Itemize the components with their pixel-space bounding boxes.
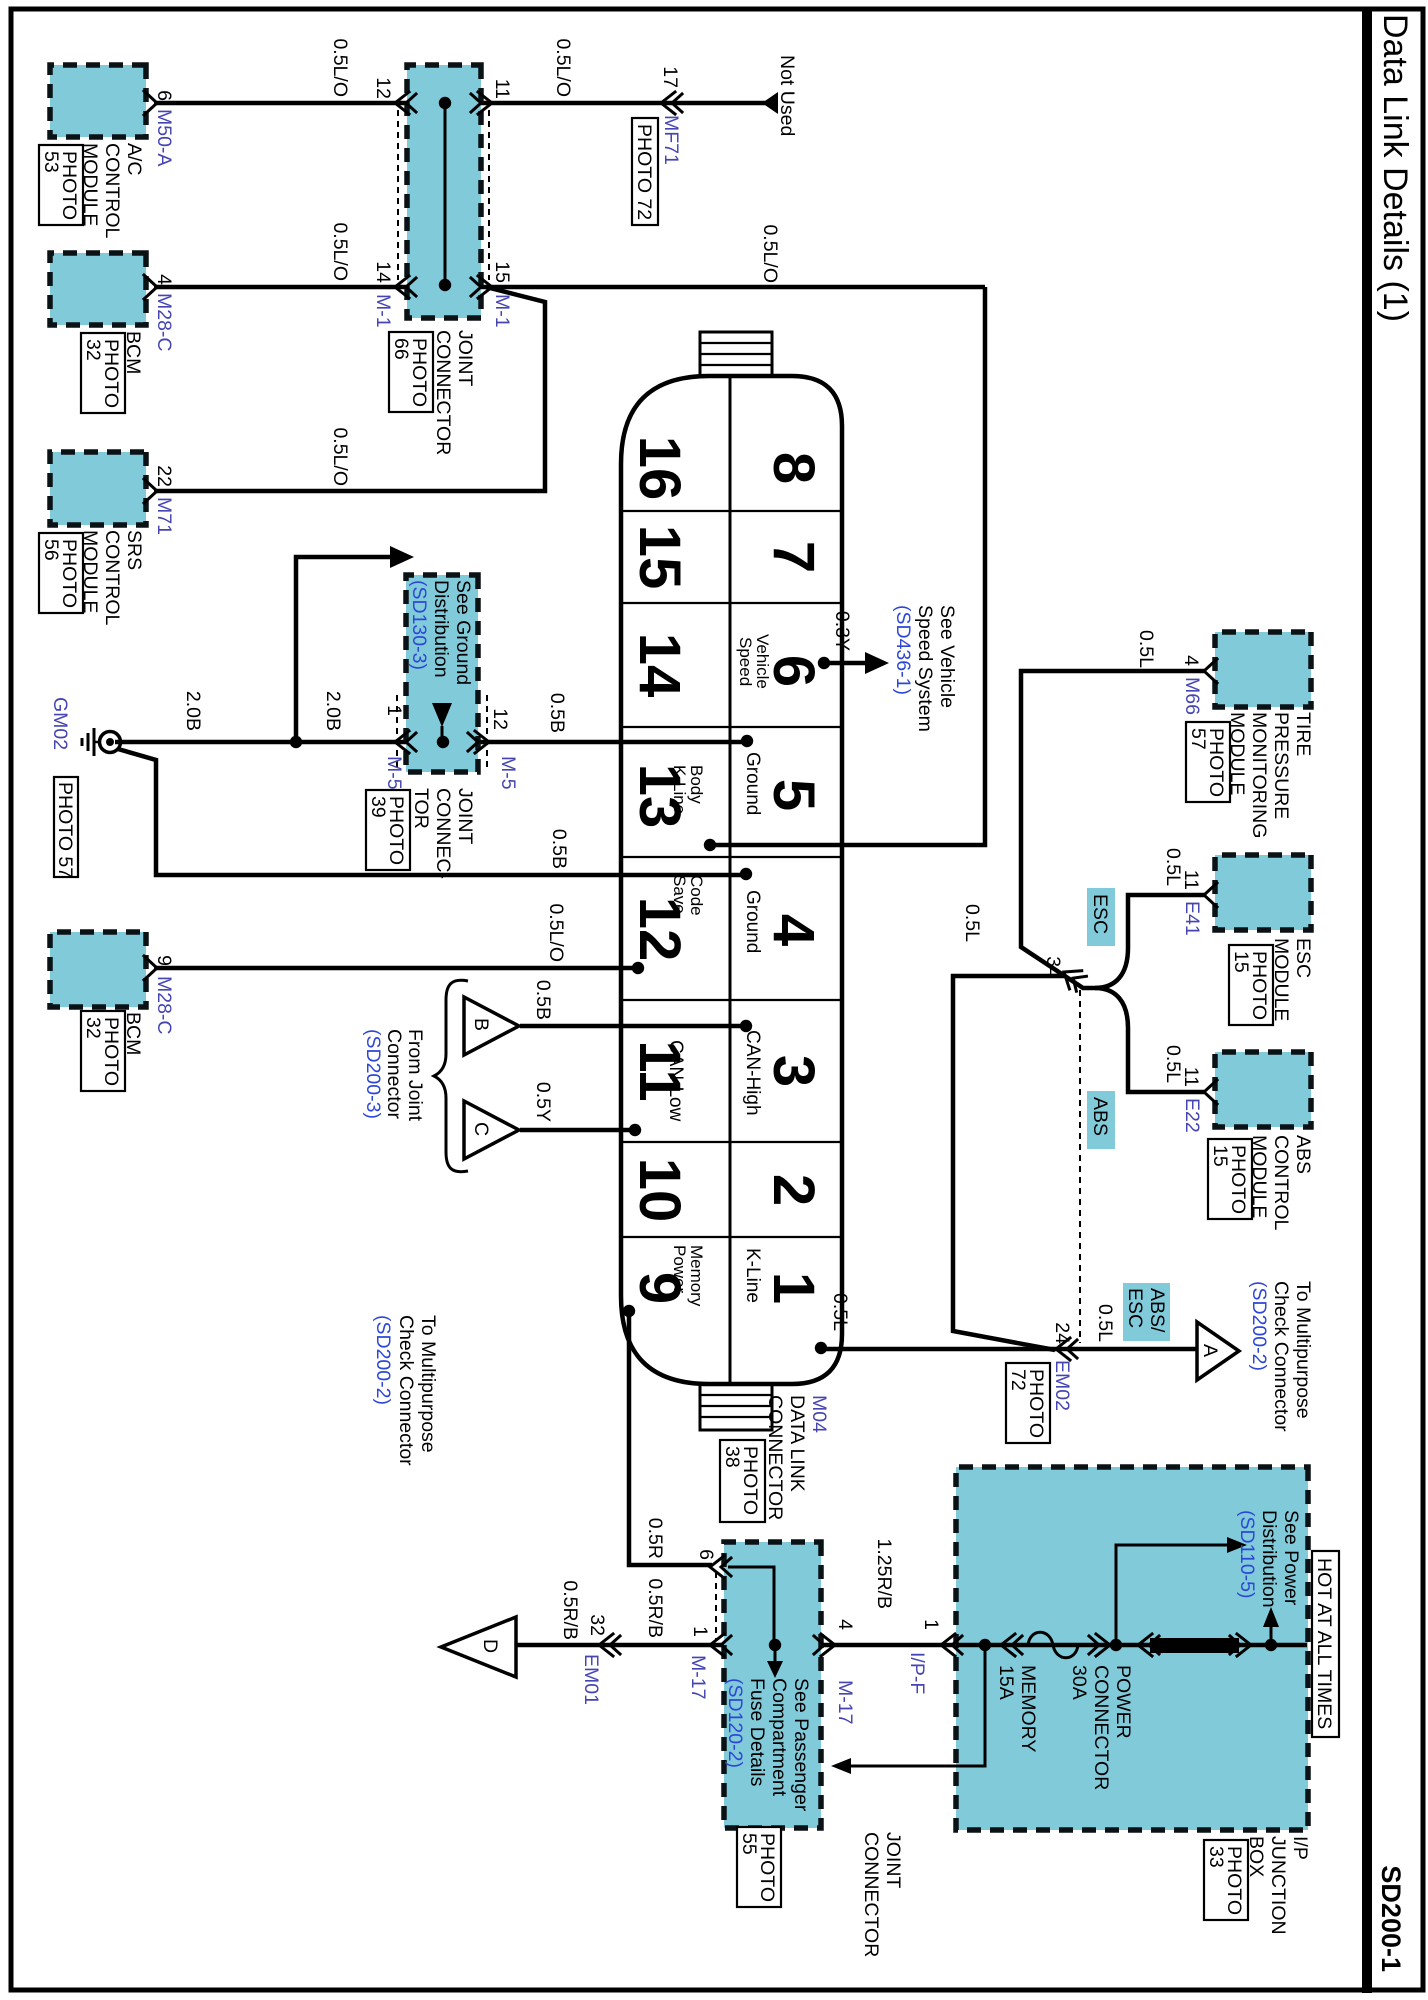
wire SRS: M-1 pin15 diagonal, run and drop: [154, 287, 545, 491]
see ground distribution arrow head: [390, 546, 414, 568]
BCM pin chevron: [144, 275, 157, 299]
svg-text:14: 14: [372, 261, 394, 283]
svg-text:38: 38: [721, 1446, 743, 1468]
svg-text:0.5B: 0.5B: [546, 693, 568, 733]
svg-text:4: 4: [834, 1619, 856, 1630]
svg-text:12: 12: [372, 77, 394, 99]
I/P junction box: [956, 1467, 1308, 1830]
M-17 internal dot: [769, 1639, 781, 1651]
pin 5 dot: [741, 735, 753, 747]
svg-text:SD200-1: SD200-1: [1376, 1865, 1406, 1972]
svg-text:0.3Y: 0.3Y: [831, 611, 853, 651]
ABS/ESC highlight label: [1123, 1283, 1170, 1341]
fuse MEMORY 15A chevrons lower: [1001, 1634, 1022, 1656]
svg-text:2.0B: 2.0B: [322, 691, 344, 731]
svg-text:CONNEC-: CONNEC-: [432, 788, 454, 879]
cell separator 12|11: [621, 999, 842, 1001]
PHOTO 53 box: [39, 145, 83, 225]
M-17 chevrons pin 1 bottom: [710, 1634, 731, 1656]
PHOTO 72 box (MF71): [632, 118, 658, 225]
wire pin 13 up and left to M-1 pin 15: [710, 287, 985, 845]
PHOTO 72 box (EM02): [1006, 1363, 1050, 1443]
hot at all times arrow: [1270, 1627, 1273, 1645]
svg-text:M28-C: M28-C: [153, 293, 175, 352]
PHOTO 66 box: [389, 332, 433, 412]
M-17 chevrons pin 6 bottom: [710, 1556, 731, 1578]
svg-text:0.5L/O: 0.5L/O: [329, 38, 351, 97]
M-1 dashed connector edge bottom: [397, 110, 399, 280]
svg-text:Save: Save: [670, 875, 689, 914]
svg-text:5: 5: [761, 779, 826, 811]
fuse element: [1028, 1632, 1078, 1658]
pin 3 dot: [740, 1020, 752, 1032]
M-5 joint connector box with SD130-3 note: [406, 575, 478, 772]
PHOTO 32 box: [81, 333, 125, 413]
BCM 2 module box: [50, 932, 146, 1007]
svg-text:ESC: ESC: [1124, 1288, 1146, 1328]
svg-text:15: 15: [627, 525, 692, 590]
wire pin 11 CAN-Low down to C: [520, 1128, 635, 1133]
ABS module box: [1215, 1052, 1311, 1127]
svg-text:2.0B: 2.0B: [182, 691, 204, 731]
svg-text:See Passenger: See Passenger: [790, 1678, 812, 1812]
connector row divider: [729, 376, 732, 1384]
inline connector MF71: [661, 92, 682, 114]
svg-text:PHOTO 72: PHOTO 72: [633, 124, 655, 220]
svg-text:17: 17: [659, 66, 681, 88]
M-1 junction dot left: [439, 97, 451, 109]
M-17 chevrons pin 4 top: [814, 1634, 835, 1656]
svg-text:Check Connector: Check Connector: [395, 1315, 417, 1466]
ESC pin chevron: [1204, 883, 1217, 907]
vehicle speed arrow: [865, 652, 889, 674]
M-5 chevrons top (pin 12): [468, 731, 489, 753]
svg-text:SRS: SRS: [123, 530, 145, 570]
junction dot 1: [979, 1639, 991, 1651]
svg-text:E22: E22: [1181, 1098, 1203, 1133]
svg-text:Speed: Speed: [736, 637, 755, 686]
svg-text:15: 15: [491, 261, 513, 283]
M-1 dashed connector edge top: [488, 110, 490, 280]
svg-text:MF71: MF71: [660, 115, 682, 165]
ground branch to SD130-3 arrow: [296, 557, 392, 742]
svg-text:32: 32: [82, 1017, 104, 1039]
svg-text:PRESSURE: PRESSURE: [1270, 712, 1292, 819]
power connector chevrons upper: [1230, 1634, 1251, 1656]
svg-text:Ground: Ground: [742, 752, 763, 815]
svg-text:CAN-High: CAN-High: [742, 1030, 763, 1116]
wire EM02 branch: down from junction, right, diagonal to 24: [953, 976, 1066, 1350]
svg-text:Distribution: Distribution: [1258, 1510, 1280, 1608]
I/P entry chevrons: [941, 1634, 962, 1656]
inline connector EM02 (24): [1056, 1338, 1077, 1360]
PHOTO 15 box (ESC): [1229, 945, 1273, 1025]
svg-text:CONTROL: CONTROL: [1270, 1135, 1292, 1230]
pin 13 dot: [704, 839, 716, 851]
svg-text:(SD200-3): (SD200-3): [362, 1029, 384, 1119]
M-1 chevrons wire1 top (pin 11): [471, 92, 492, 114]
svg-text:0.5L: 0.5L: [1094, 1304, 1116, 1342]
wire pin 9 right and up to M-17 pin 6: [629, 1311, 712, 1565]
svg-text:1: 1: [383, 705, 405, 716]
svg-text:Data Link Details (1): Data Link Details (1): [1376, 14, 1414, 322]
svg-text:57: 57: [1187, 728, 1209, 750]
svg-text:M71: M71: [153, 497, 175, 535]
svg-text:4: 4: [761, 914, 826, 946]
wire pin 12 down to BCM: [154, 966, 638, 971]
ground junction dot: [290, 736, 302, 748]
svg-text:CONNECTOR: CONNECTOR: [764, 1395, 786, 1520]
BCM 2 pin chevron: [144, 956, 157, 980]
PHOTO 32 box (BCM 2): [81, 1011, 125, 1091]
svg-text:TOR: TOR: [410, 788, 432, 829]
svg-text:0.5R/B: 0.5R/B: [644, 1578, 666, 1638]
M-5 internal dot: [437, 736, 449, 748]
svg-text:JUNCTION: JUNCTION: [1267, 1836, 1289, 1935]
svg-text:33: 33: [1205, 1846, 1227, 1868]
svg-text:12: 12: [489, 708, 511, 730]
inline connector EM01 (32): [599, 1634, 620, 1656]
svg-text:POWER: POWER: [1112, 1665, 1134, 1739]
TPMS module box: [1215, 632, 1311, 707]
right tab: [700, 1384, 772, 1430]
A/C pin chevron: [144, 91, 157, 115]
svg-text:M-5: M-5: [383, 756, 405, 790]
svg-text:MONITORING: MONITORING: [1248, 712, 1270, 838]
svg-text:30A: 30A: [1068, 1665, 1090, 1700]
svg-text:JOINT: JOINT: [882, 1832, 904, 1888]
svg-text:EM01: EM01: [580, 1654, 602, 1705]
pin 12 dot: [632, 962, 644, 974]
svg-text:1: 1: [689, 1626, 711, 1637]
junction dot 2: [1110, 1639, 1122, 1651]
svg-text:Not Used: Not Used: [776, 55, 798, 136]
svg-text:ABS: ABS: [1292, 1135, 1314, 1174]
triangle C: [464, 1101, 519, 1159]
svg-text:A: A: [1199, 1344, 1221, 1357]
svg-text:(SD200-2): (SD200-2): [1248, 1281, 1270, 1371]
svg-text:Distribution: Distribution: [430, 580, 452, 678]
M-1 internal bus line: [444, 103, 447, 285]
svg-text:CONNECTOR: CONNECTOR: [1090, 1665, 1112, 1790]
svg-text:A/C: A/C: [123, 143, 145, 176]
branch to fuse details arrow: [851, 1645, 985, 1766]
svg-text:1.25R/B: 1.25R/B: [873, 1539, 895, 1609]
svg-text:39: 39: [367, 796, 389, 818]
svg-text:0.5B: 0.5B: [532, 980, 554, 1020]
svg-text:15A: 15A: [995, 1665, 1017, 1700]
svg-text:0.5R: 0.5R: [644, 1518, 666, 1559]
fuse MEMORY 15A chevrons upper: [1089, 1634, 1110, 1656]
svg-text:M28-C: M28-C: [153, 976, 175, 1035]
svg-text:Compartment: Compartment: [768, 1678, 790, 1797]
ESC highlight label: [1087, 888, 1115, 946]
svg-text:ABS: ABS: [1089, 1097, 1111, 1136]
wire pin 6 up: [824, 661, 865, 666]
ABS pin chevron: [1204, 1080, 1217, 1104]
wire M-17 pin1/EM01/triangle D: [516, 1643, 724, 1648]
svg-text:0.5L/O: 0.5L/O: [552, 38, 574, 97]
svg-text:34: 34: [1042, 956, 1064, 978]
split curve to ESC: [1095, 895, 1204, 988]
PHOTO 57 box (TPMS): [1186, 722, 1230, 802]
ABS highlight label: [1087, 1091, 1115, 1149]
svg-text:See Ground: See Ground: [452, 580, 474, 685]
svg-text:TIRE: TIRE: [1292, 712, 1314, 756]
svg-text:From Joint: From Joint: [404, 1029, 426, 1122]
svg-text:M50-A: M50-A: [153, 109, 175, 166]
left tab: [700, 332, 772, 376]
svg-text:72: 72: [1007, 1369, 1029, 1391]
pin 6 dot: [818, 657, 830, 669]
M-1 chevrons wire2 bottom (pin 14): [395, 276, 416, 298]
svg-text:53: 53: [40, 151, 62, 173]
svg-text:Fuse Details: Fuse Details: [746, 1678, 768, 1787]
ESC module box: [1215, 855, 1311, 930]
svg-text:I/P: I/P: [1289, 1836, 1311, 1860]
svg-text:11: 11: [1180, 1067, 1202, 1087]
junction dot 3: [1265, 1639, 1277, 1651]
inline connector 34 chevrons: [1058, 963, 1088, 993]
svg-text:6: 6: [695, 1549, 717, 1560]
M-17 joint connector box: [724, 1542, 821, 1828]
wire BCM to M-1 pin 14: [154, 285, 407, 290]
svg-text:3: 3: [761, 1055, 826, 1087]
cell separator 11|10: [621, 1141, 842, 1143]
svg-text:0.5Y: 0.5Y: [532, 1082, 554, 1122]
I/P main wire inside: [956, 1643, 1307, 1648]
svg-text:To Multipurpose: To Multipurpose: [1292, 1281, 1314, 1419]
wire M-17 pin4 up into I/P box: [821, 1643, 1307, 1648]
triangle B: [464, 997, 519, 1055]
svg-text:1: 1: [920, 1619, 942, 1630]
svg-text:M-1: M-1: [372, 294, 394, 328]
svg-text:M-1: M-1: [491, 294, 513, 328]
svg-text:CAN-Low: CAN-Low: [665, 1040, 686, 1122]
svg-text:0.5L/O: 0.5L/O: [329, 427, 351, 486]
split curve to ABS: [1095, 988, 1204, 1092]
svg-text:7: 7: [761, 541, 826, 573]
M-1 chevrons wire1 bottom (pin 12): [395, 92, 416, 114]
M-17 internal arrow to fuse note: [774, 1645, 777, 1661]
PHOTO 55 box: [737, 1827, 781, 1907]
svg-text:EM02: EM02: [1051, 1360, 1073, 1411]
svg-text:66: 66: [390, 338, 412, 360]
SRS control module box: [50, 452, 146, 525]
brace under B and C: [434, 980, 468, 1171]
M-17 dashed edge: [715, 1572, 717, 1640]
M-5 dashed connector edge bottom: [396, 695, 398, 770]
M-1 chevrons wire2 top (pin 15): [471, 276, 492, 298]
svg-text:See Vehicle: See Vehicle: [936, 605, 958, 708]
svg-text:0.5L/O: 0.5L/O: [329, 222, 351, 281]
wire A/C module to M-1 pin 12: [154, 101, 407, 106]
SRS pin chevron: [144, 479, 157, 503]
M-5 chevrons bottom (pin 1): [395, 731, 416, 753]
PHOTO 57 box (ground): [54, 777, 78, 877]
TPMS pin chevron: [1204, 659, 1217, 683]
svg-text:(SD120-2): (SD120-2): [724, 1678, 746, 1768]
Not Used arrow: [762, 92, 778, 114]
A/C control module box: [50, 65, 146, 137]
triangle D: [441, 1617, 516, 1677]
svg-text:ESC: ESC: [1292, 938, 1314, 978]
svg-text:JOINT: JOINT: [454, 788, 476, 844]
svg-text:10: 10: [627, 1158, 692, 1223]
svg-text:ABS/: ABS/: [1146, 1288, 1168, 1333]
cell separator 16|15: [621, 510, 842, 512]
svg-text:0.5L: 0.5L: [1135, 630, 1157, 668]
dashed link to EM02: [1079, 990, 1081, 1343]
M-17 internal line from pin 6: [728, 1567, 774, 1645]
pin 11 dot: [629, 1124, 641, 1136]
svg-text:56: 56: [40, 539, 62, 561]
branch to See Power Distribution: [1116, 1545, 1227, 1645]
svg-text:4: 4: [153, 274, 175, 285]
cell separator 10|9: [621, 1236, 842, 1238]
svg-text:Power: Power: [670, 1245, 689, 1294]
svg-text:0.5B: 0.5B: [548, 829, 570, 869]
svg-text:8: 8: [761, 452, 826, 484]
svg-text:CONTROL: CONTROL: [101, 530, 123, 625]
svg-text:Check Connector: Check Connector: [1270, 1281, 1292, 1432]
svg-text:DATA LINK: DATA LINK: [786, 1395, 808, 1492]
svg-text:32: 32: [82, 339, 104, 361]
ground symbol GM02: [82, 728, 121, 756]
svg-text:Speed System: Speed System: [914, 605, 936, 732]
svg-text:Ground: Ground: [742, 890, 763, 953]
svg-text:To Multipurpose: To Multipurpose: [417, 1315, 439, 1453]
wire M-1 pin 15 up joining Body K-Line run: [481, 285, 985, 290]
svg-text:M-5: M-5: [497, 756, 519, 790]
svg-text:0.5L/O: 0.5L/O: [759, 224, 781, 283]
M-5 internal arrow to dot: [441, 726, 444, 740]
svg-text:22: 22: [153, 465, 175, 487]
svg-text:HOT AT ALL TIMES: HOT AT ALL TIMES: [1313, 1558, 1335, 1729]
PHOTO 33 box: [1204, 1840, 1248, 1920]
svg-text:PHOTO 57: PHOTO 57: [54, 782, 76, 878]
PHOTO 39 box: [366, 790, 410, 870]
svg-text:CONNECTOR: CONNECTOR: [860, 1832, 882, 1957]
svg-text:0.5L: 0.5L: [829, 1293, 851, 1331]
wire M-1 pin 11 up to Not Used: [481, 101, 766, 106]
svg-text:55: 55: [738, 1833, 760, 1855]
svg-text:CONNECTOR: CONNECTOR: [432, 330, 454, 455]
svg-text:K-Line: K-Line: [670, 765, 689, 814]
second ground path to pin 4: [118, 749, 746, 875]
svg-text:24: 24: [1051, 1322, 1073, 1344]
svg-text:6: 6: [153, 90, 175, 101]
svg-text:1: 1: [761, 1272, 826, 1304]
PHOTO 15 box (ABS): [1208, 1139, 1252, 1219]
wire pin 1 K-Line up to triangle A: [821, 1347, 1196, 1352]
M-1 joint connector box: [407, 65, 481, 318]
M-5 dashed connector edge top: [486, 695, 488, 770]
svg-text:(SD110-5): (SD110-5): [1236, 1510, 1258, 1599]
svg-text:4: 4: [1180, 655, 1202, 666]
power connector chevrons lower: [1138, 1634, 1159, 1656]
svg-text:(SD130-3): (SD130-3): [408, 580, 430, 670]
svg-text:(SD200-2): (SD200-2): [372, 1315, 394, 1405]
triangle A: [1197, 1322, 1239, 1380]
BCM module box: [50, 253, 146, 325]
svg-text:M-17: M-17: [834, 1680, 856, 1724]
svg-text:11: 11: [1180, 870, 1202, 890]
POWER CONNECTOR 30A bar: [1150, 1638, 1239, 1653]
svg-text:0.5R/B: 0.5R/B: [559, 1580, 581, 1640]
svg-text:2: 2: [761, 1174, 826, 1206]
svg-text:B: B: [470, 1018, 492, 1031]
svg-text:Connector: Connector: [383, 1029, 405, 1119]
svg-text:16: 16: [627, 436, 692, 501]
PHOTO 56 box: [39, 533, 83, 613]
pin 1 dot: [815, 1342, 827, 1354]
svg-text:ESC: ESC: [1089, 894, 1111, 934]
svg-text:C: C: [470, 1122, 492, 1136]
cell separator 15|14: [621, 602, 842, 604]
header separator line: [1362, 7, 1372, 1993]
svg-text:M-17: M-17: [687, 1655, 709, 1699]
svg-text:M04: M04: [808, 1395, 830, 1433]
svg-text:0.5L: 0.5L: [961, 904, 983, 942]
svg-text:JOINT: JOINT: [454, 330, 476, 386]
svg-text:I/P-F: I/P-F: [906, 1652, 928, 1694]
cell separator 14|13: [621, 726, 842, 728]
wire pin 3 CAN-High down to B: [520, 1024, 746, 1029]
svg-text:MEMORY: MEMORY: [1017, 1665, 1039, 1752]
svg-text:D: D: [479, 1639, 501, 1653]
svg-text:0.5L/O: 0.5L/O: [545, 903, 567, 962]
svg-text:CONTROL: CONTROL: [101, 143, 123, 238]
svg-text:M66: M66: [1181, 677, 1203, 715]
svg-text:GM02: GM02: [49, 697, 71, 750]
svg-text:14: 14: [627, 633, 692, 698]
pin 4 dot: [740, 868, 752, 880]
PHOTO 38 box: [720, 1440, 765, 1522]
wire TPMS down, left, diagonal to 34 split: [1021, 671, 1204, 988]
connector M04 outline: [621, 376, 842, 1384]
svg-text:11: 11: [491, 79, 513, 99]
svg-text:32: 32: [586, 1614, 608, 1636]
svg-text:K-Line: K-Line: [742, 1248, 763, 1303]
svg-text:(SD436-1): (SD436-1): [892, 605, 914, 695]
ground wire GM02 up through M-5 to pin 5: [115, 740, 747, 745]
svg-text:15: 15: [1230, 951, 1252, 973]
svg-text:9: 9: [153, 955, 175, 966]
svg-text:E41: E41: [1181, 901, 1203, 936]
pin 9 dot: [623, 1305, 635, 1317]
HOT AT ALL TIMES box: [1312, 1551, 1339, 1737]
cell separator 13|12: [621, 856, 842, 858]
svg-text:See Power: See Power: [1280, 1510, 1302, 1606]
M-1 junction dot right: [439, 279, 451, 291]
svg-text:15: 15: [1209, 1145, 1231, 1167]
